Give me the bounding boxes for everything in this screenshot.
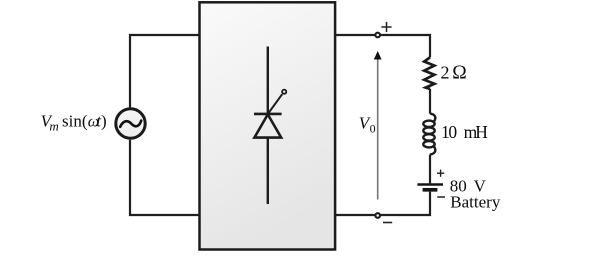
wire inductor to battery (429, 155, 431, 184)
wire bottom-left loop (130, 140, 200, 215)
ac source VS (116, 109, 145, 138)
thyristor U1 anode wire (267, 47, 269, 114)
wire top-right (336, 35, 430, 57)
svg-text:V0: V0 (359, 114, 376, 136)
thyristor U1 gate terminal (282, 90, 286, 94)
thyristor U1 gate lead (268, 94, 282, 114)
node terminal minus (375, 213, 380, 218)
svg-text:10mH: 10mH (441, 122, 488, 142)
svg-text:Battery: Battery (450, 193, 501, 212)
wire bottom-right (336, 192, 430, 215)
battery minus sign (437, 196, 445, 198)
wire resistor to inductor (429, 89, 431, 114)
svg-text:2Ω: 2Ω (441, 63, 467, 84)
minus sign bottom (383, 222, 392, 224)
svg-text:Vmsin(ωt): Vmsin(ωt) (41, 112, 107, 134)
converter box (200, 2, 336, 249)
battery short plate (423, 188, 438, 192)
battery long plate (417, 183, 443, 185)
plus sign top (381, 22, 391, 32)
thyristor U1 cathode wire (267, 138, 269, 204)
thyristor U1 cathode bar (254, 113, 282, 116)
wire top-left loop (130, 35, 200, 107)
battery plus sign (437, 170, 444, 177)
inductor L1 (423, 114, 435, 155)
thyristor U1 triangle (254, 114, 281, 137)
resistor R1 (424, 57, 434, 89)
node terminal plus (375, 33, 380, 38)
arrow V0 (374, 51, 382, 200)
